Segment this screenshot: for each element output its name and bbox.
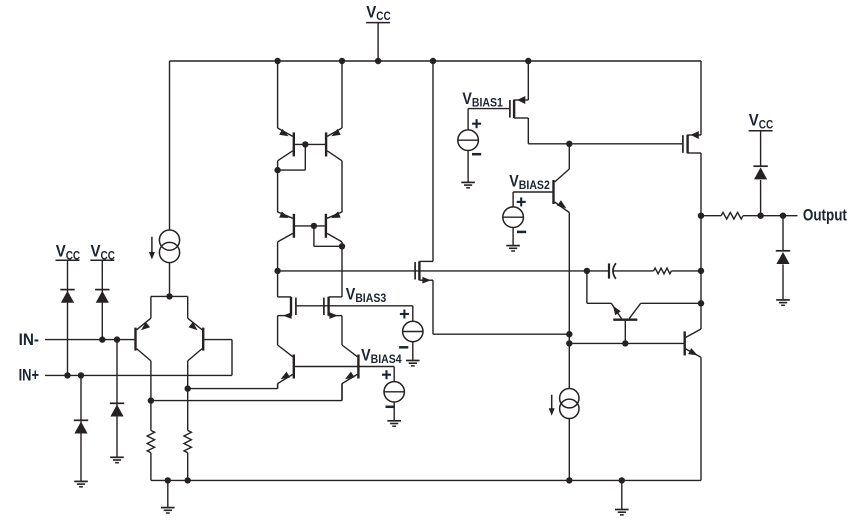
svg-text:CC: CC	[376, 9, 391, 23]
svg-text:Output: Output	[803, 207, 847, 225]
svg-text:V: V	[56, 243, 66, 261]
svg-text:IN-: IN-	[19, 331, 39, 349]
svg-text:V: V	[91, 243, 101, 261]
svg-text:V: V	[366, 4, 376, 22]
svg-text:BIAS1: BIAS1	[472, 96, 503, 110]
svg-text:V: V	[462, 90, 472, 108]
svg-text:BIAS4: BIAS4	[371, 352, 402, 366]
svg-text:BIAS3: BIAS3	[355, 291, 386, 305]
svg-text:V: V	[749, 112, 759, 130]
svg-text:IN+: IN+	[19, 367, 39, 385]
svg-text:V: V	[509, 173, 519, 191]
svg-text:BIAS2: BIAS2	[519, 178, 550, 192]
svg-text:V: V	[361, 347, 371, 365]
svg-text:CC: CC	[759, 117, 774, 131]
svg-text:V: V	[346, 286, 356, 304]
